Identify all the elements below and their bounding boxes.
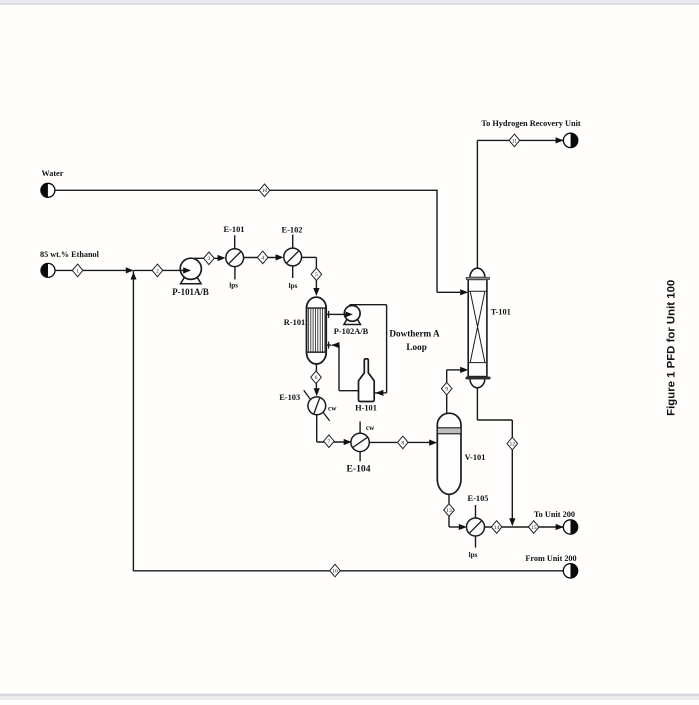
svg-text:85 wt.% Ethanol: 85 wt.% Ethanol xyxy=(40,250,100,259)
page top bar xyxy=(0,0,699,3)
wire water feed vertical xyxy=(436,190,438,293)
utility stub E-101 bottom xyxy=(234,267,236,280)
utility stub E-103 lower-right xyxy=(323,412,330,421)
stream diamond 7 xyxy=(324,435,335,448)
off-page connector To Unit 200 xyxy=(563,520,577,534)
stream diamond 8 xyxy=(398,436,409,449)
arrow into R-101 nozzle xyxy=(331,342,339,348)
utility stub E-103 upper-left xyxy=(304,390,311,399)
stream diamond 5 xyxy=(311,268,322,281)
heat exchanger E-105 xyxy=(467,518,485,536)
svg-text:E-103: E-103 xyxy=(279,393,300,402)
off-page connector To Hydrogen Recovery xyxy=(563,133,577,147)
arrow into E-104 xyxy=(344,439,352,445)
stream diamond 15 xyxy=(528,521,539,534)
arrow into T-101 bottom feed xyxy=(460,367,468,373)
wire T-101 bottoms xyxy=(476,387,478,420)
wire E-104 to V-101 xyxy=(369,441,431,443)
utility stub E-102 top xyxy=(292,235,294,249)
nozzle R-101 bottom right with flange xyxy=(326,344,331,346)
svg-text:10: 10 xyxy=(262,188,268,194)
wire recycle riser xyxy=(132,270,134,571)
arrow into H-101 xyxy=(375,390,383,396)
svg-text:E-105: E-105 xyxy=(468,494,489,503)
arrow into hydrogen connector xyxy=(556,137,564,143)
reactor R-101 xyxy=(307,297,327,364)
svg-text:Loop: Loop xyxy=(406,342,426,352)
svg-text:cw: cw xyxy=(328,404,337,412)
arrow into E-101 xyxy=(218,255,226,261)
heat exchanger E-103 xyxy=(308,397,326,415)
wire into R-101 bottom nozzle xyxy=(332,344,339,346)
svg-text:P-101A/B: P-101A/B xyxy=(172,287,209,297)
svg-text:9: 9 xyxy=(445,387,448,393)
stream diamond 1 xyxy=(72,264,83,277)
svg-text:E-101: E-101 xyxy=(224,225,245,234)
svg-text:E-104: E-104 xyxy=(347,464,371,475)
svg-text:15: 15 xyxy=(531,525,537,531)
svg-text:1: 1 xyxy=(76,268,79,274)
svg-text:cw: cw xyxy=(366,424,375,432)
wire R-101 bottom outlet xyxy=(315,364,317,391)
wire E-101 to E-102 xyxy=(244,257,278,259)
arrow into To Unit 200 connector xyxy=(556,524,564,530)
svg-text:To Unit 200: To Unit 200 xyxy=(534,510,575,519)
wire into H-101 xyxy=(375,392,387,394)
svg-text:16: 16 xyxy=(332,569,338,575)
wire H-101 to riser xyxy=(339,390,359,392)
stream diamond 16 xyxy=(330,564,341,577)
wire dowtherm riser up xyxy=(338,345,340,391)
svg-text:lps: lps xyxy=(469,551,478,559)
arrow into R-101 top xyxy=(313,288,319,296)
wire R-101 to P-102 xyxy=(331,313,345,315)
arrow into T-101 top feed xyxy=(460,289,468,295)
arrow inside P-102 xyxy=(345,313,346,315)
wire water feed horizontal xyxy=(55,189,437,191)
off-page connector From Unit 200 xyxy=(563,564,577,578)
heat exchanger E-101 xyxy=(226,249,244,267)
wire E-103 to E-104 xyxy=(316,415,318,442)
stream diamond 9 xyxy=(441,382,452,395)
arrow into E-102 xyxy=(276,254,284,260)
svg-text:13: 13 xyxy=(446,508,452,514)
arrow into V-101 xyxy=(429,440,437,446)
wire E-105 to Unit 200 xyxy=(485,526,564,528)
wire pump discharge to E-101 xyxy=(194,257,220,259)
wire V-101 bottoms xyxy=(448,494,450,527)
stream diamond 6 xyxy=(311,371,322,384)
stream diamond 11 xyxy=(509,134,520,147)
stream diamond 10 xyxy=(259,184,270,197)
utility stub E-101 top xyxy=(234,235,236,249)
pump P-101A/B xyxy=(180,258,201,284)
off-page connector Ethanol feed xyxy=(41,263,55,277)
pump P-102A/B xyxy=(344,306,361,325)
wire water feed into T-101 xyxy=(437,291,462,293)
arrow inside P-101 xyxy=(181,269,184,271)
utility stub E-105 top xyxy=(475,505,477,518)
arrow into E-105 xyxy=(459,524,467,530)
wire mix tee to pump P-101 xyxy=(134,269,182,271)
fired heater H-101 xyxy=(359,359,375,402)
svg-text:lps: lps xyxy=(289,282,298,290)
svg-text:3: 3 xyxy=(208,256,211,262)
vessel V-101 xyxy=(437,413,461,494)
svg-text:E-102: E-102 xyxy=(282,226,303,235)
arrow ethanol into mix tee xyxy=(126,267,134,273)
heat exchanger E-104 xyxy=(351,433,369,451)
utility stub E-104 top xyxy=(359,422,361,434)
svg-text:Water: Water xyxy=(42,169,64,178)
wire P-102 discharge top xyxy=(350,304,387,306)
svg-text:14: 14 xyxy=(494,525,500,531)
svg-text:Dowtherm A: Dowtherm A xyxy=(389,329,440,339)
stream diamond 4 xyxy=(257,251,268,264)
svg-text:4: 4 xyxy=(261,255,264,261)
off-page connector Water feed xyxy=(41,183,55,197)
stream diamond 12 xyxy=(507,437,518,450)
svg-text:P-102A/B: P-102A/B xyxy=(334,327,369,336)
svg-text:11: 11 xyxy=(512,138,518,144)
svg-text:5: 5 xyxy=(315,272,318,278)
svg-text:H-101: H-101 xyxy=(355,404,377,413)
svg-text:R-101: R-101 xyxy=(284,318,305,327)
wire E-102 to R-101 corner xyxy=(302,256,317,258)
stream diamond 14 xyxy=(491,521,502,534)
wire ethanol feed xyxy=(55,269,128,271)
page bottom bar xyxy=(0,694,699,696)
utility stub E-102 bottom xyxy=(292,266,294,278)
svg-text:7: 7 xyxy=(328,439,331,445)
svg-text:Figure 1 PFD for Unit 100: Figure 1 PFD for Unit 100 xyxy=(665,280,677,416)
utility stub E-105 bottom xyxy=(475,536,477,548)
arrow into E-103 xyxy=(314,388,320,396)
absorber column T-101 xyxy=(466,268,491,387)
svg-text:From Unit 200: From Unit 200 xyxy=(525,554,576,563)
svg-text:T-101: T-101 xyxy=(491,308,511,317)
wire dowtherm down right side xyxy=(386,305,388,393)
stream diamond 3 xyxy=(204,252,215,265)
heat exchanger E-102 xyxy=(284,248,302,266)
stream diamond 2 xyxy=(152,264,163,277)
nozzle R-101 top right with flange xyxy=(326,313,331,315)
svg-text:6: 6 xyxy=(315,375,318,381)
svg-text:V-101: V-101 xyxy=(465,453,486,462)
arrow T-101 bottoms into product line xyxy=(509,518,515,526)
wire V-101 top to T-101 xyxy=(446,370,448,414)
svg-text:To Hydrogen Recovery Unit: To Hydrogen Recovery Unit xyxy=(481,119,581,128)
svg-text:12: 12 xyxy=(510,442,516,448)
stream diamond 13 xyxy=(444,504,455,517)
wire down to R-101 xyxy=(315,257,317,291)
wire recycle horizontal from Unit 200 xyxy=(133,570,563,572)
svg-text:lps: lps xyxy=(229,282,238,290)
wire T-101 overhead xyxy=(476,140,478,268)
arrow recycle up into tee xyxy=(131,272,137,280)
svg-text:8: 8 xyxy=(401,440,404,446)
svg-text:2: 2 xyxy=(156,268,159,274)
utility stub E-104 bottom xyxy=(359,451,361,461)
